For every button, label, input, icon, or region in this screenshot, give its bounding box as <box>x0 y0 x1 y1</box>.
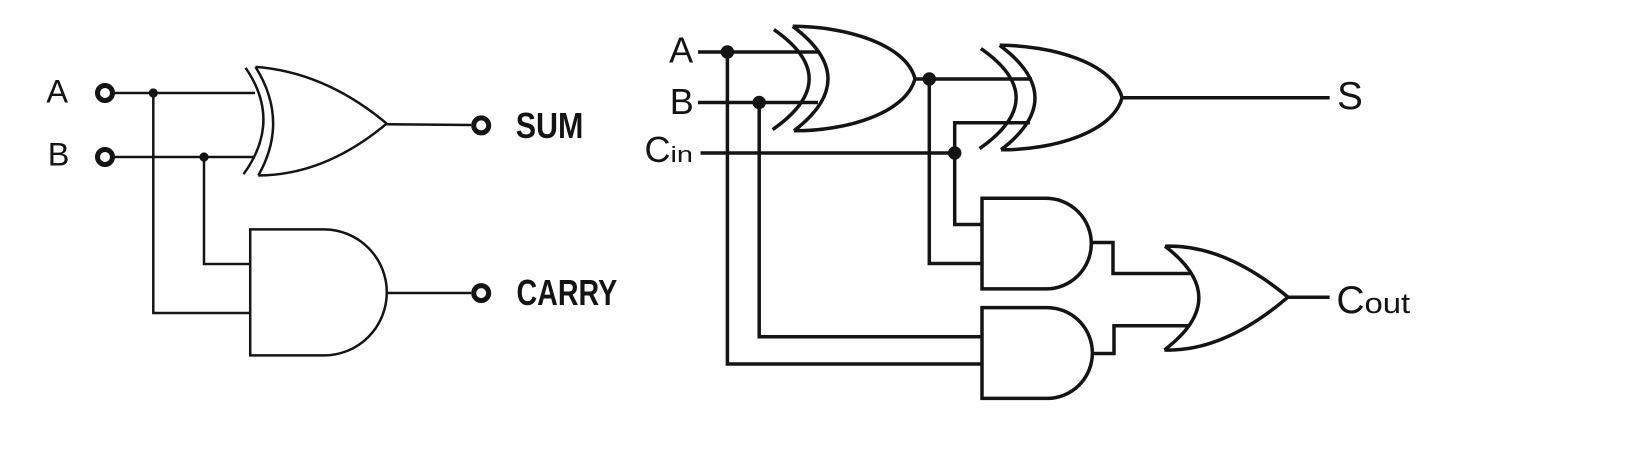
xor gate XOR-HA (half adder) <box>244 67 387 176</box>
wire B to AND2 <box>759 103 982 337</box>
wire Cout output <box>1288 295 1330 299</box>
wire XOR1 out to XOR2 <box>915 77 1032 81</box>
junction Cin (full adder) <box>948 146 961 159</box>
svg-text:in: in <box>671 142 694 167</box>
svg-text:C: C <box>1336 279 1364 322</box>
wire Cin (full adder) <box>701 151 955 155</box>
wire AND2 to OR <box>1092 326 1190 354</box>
svg-text:B: B <box>48 136 70 172</box>
and gate AND1 <box>982 198 1091 289</box>
svg-text:A: A <box>669 30 693 71</box>
xor gate XOR1 (A xor B) <box>773 26 915 131</box>
and gate AND2 <box>982 308 1092 399</box>
svg-text:C: C <box>645 129 671 170</box>
wire B to AND (half adder) <box>204 157 250 264</box>
junction A (half adder) <box>149 88 158 97</box>
svg-text:A: A <box>46 74 68 110</box>
junction B (half adder) <box>199 152 208 161</box>
wire A (full adder) <box>698 50 820 54</box>
terminal A (half adder) <box>98 86 113 101</box>
svg-text:S: S <box>1337 75 1363 118</box>
junction XOR1 out <box>923 72 936 85</box>
label Cin (full adder input) <box>645 129 694 170</box>
svg-text:out: out <box>1365 288 1411 320</box>
wire SUM <box>387 123 472 126</box>
svg-text:B: B <box>670 81 694 122</box>
wire Cin to XOR2 <box>955 123 1030 153</box>
wire AND1 to OR <box>1091 243 1191 274</box>
svg-text:SUM: SUM <box>516 105 584 146</box>
xor gate XOR2 (sum) <box>980 45 1122 150</box>
wire A to AND2 <box>727 52 982 364</box>
terminal SUM <box>474 118 489 133</box>
wire XOR1 out to AND1 <box>929 79 982 264</box>
wire S output <box>1122 96 1330 100</box>
wire CARRY <box>387 292 471 295</box>
wire Cin to AND1 <box>955 153 982 225</box>
wire A to AND (half adder) <box>153 93 250 313</box>
label Cout <box>1336 279 1410 322</box>
junction B (full adder) <box>753 96 766 109</box>
or gate OR1 (carry out) <box>1164 246 1288 350</box>
terminal CARRY <box>474 286 489 301</box>
junction A (full adder) <box>721 45 734 58</box>
terminal B (half adder) <box>98 150 113 165</box>
wire B (half adder) <box>115 156 255 159</box>
svg-text:CARRY: CARRY <box>517 272 618 313</box>
and gate AND-HA (half adder) <box>250 229 387 355</box>
wire B (full adder) <box>698 101 818 105</box>
wire A (half adder) <box>115 92 255 95</box>
